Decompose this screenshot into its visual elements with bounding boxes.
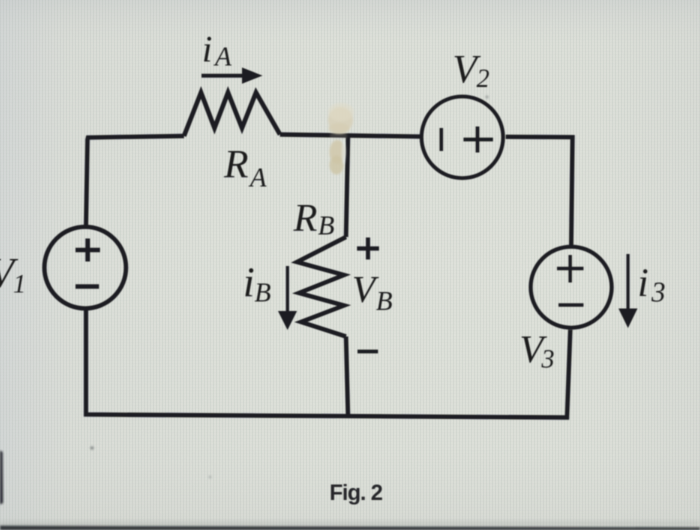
svg-text:i: i: [243, 261, 255, 307]
svg-text:B: B: [376, 286, 393, 316]
svg-text:B: B: [318, 211, 335, 241]
svg-text:i: i: [202, 30, 212, 71]
svg-text:Fig. 2: Fig. 2: [330, 480, 383, 505]
svg-text:2: 2: [477, 64, 490, 93]
svg-text:V: V: [352, 269, 379, 311]
svg-text:R: R: [223, 142, 248, 187]
svg-text:3: 3: [541, 345, 555, 374]
svg-text:R: R: [293, 197, 318, 240]
svg-text:A: A: [248, 163, 267, 193]
svg-text:A: A: [213, 42, 232, 72]
svg-text:i: i: [638, 260, 649, 305]
svg-text:1: 1: [13, 270, 26, 299]
svg-text:B: B: [255, 278, 272, 308]
svg-text:3: 3: [651, 278, 666, 309]
